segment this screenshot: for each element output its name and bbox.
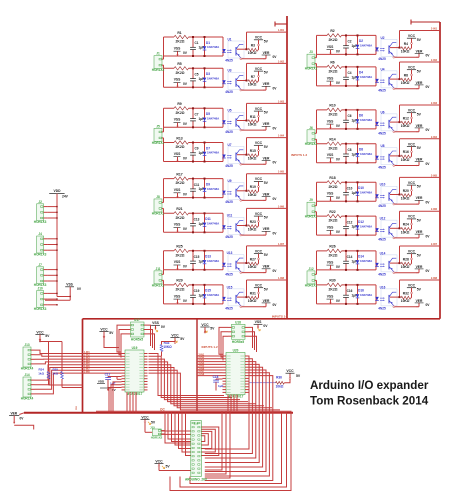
wires J13 to bus edge [35, 350, 83, 353]
connector J11 HOR1X2 [154, 271, 162, 284]
svg-text:4N25: 4N25 [378, 307, 386, 311]
zener diode D2 [357, 35, 359, 44]
svg-text:HOR1X3: HOR1X3 [34, 220, 47, 224]
svg-text:5V: 5V [417, 69, 422, 73]
svg-text:HOR1X2: HOR1X2 [305, 215, 318, 219]
wires J14 to bus edge [35, 365, 83, 380]
svg-text:1-IN7: 1-IN7 [84, 369, 90, 371]
wire big loop right [170, 411, 291, 490]
wire J6 pin1 [316, 129, 318, 133]
svg-text:VSS: VSS [174, 260, 181, 264]
IC U20 MCP23017 [226, 353, 245, 395]
svg-text:J2: J2 [38, 200, 42, 204]
svg-text:C17: C17 [105, 373, 111, 377]
capacitor C8 [345, 144, 347, 154]
svg-text:2-IN3: 2-IN3 [199, 360, 205, 362]
svg-text:1kΩ: 1kΩ [38, 372, 44, 376]
svg-text:R21: R21 [176, 207, 182, 211]
power flag VCC 5V [407, 218, 416, 220]
svg-text:2K2Ω: 2K2Ω [176, 216, 185, 220]
svg-text:D14: D14 [358, 255, 364, 259]
svg-text:4N25: 4N25 [225, 200, 233, 204]
svg-text:2-IN2: 2-IN2 [431, 59, 438, 62]
svg-text:U4: U4 [380, 67, 384, 71]
svg-text:VER: VER [263, 82, 270, 86]
svg-text:D10: D10 [358, 186, 364, 190]
svg-text:1N4748A: 1N4748A [207, 293, 220, 297]
svg-text:5V: 5V [151, 421, 156, 425]
wire J5 pin1 [163, 127, 165, 132]
svg-text:5V: 5V [210, 327, 215, 331]
capacitor C10 [345, 182, 347, 192]
svg-text:10KΩ: 10KΩ [401, 158, 410, 162]
optocoupler U16 4N25 [381, 289, 397, 306]
zener diode D12 [357, 216, 359, 225]
svg-text:1μF: 1μF [352, 225, 358, 229]
bus taps into U19 [83, 353, 122, 355]
net wire to bus 2-IN8 [400, 279, 441, 281]
svg-text:VSS: VSS [327, 119, 334, 123]
wire collector to pull-up [237, 120, 247, 122]
svg-text:R18: R18 [329, 176, 335, 180]
svg-text:2-IN6: 2-IN6 [199, 368, 205, 370]
svg-text:R2: R2 [330, 29, 334, 33]
svg-text:J5: J5 [156, 124, 160, 128]
svg-text:VER: VER [263, 193, 270, 197]
resistor R13 [174, 140, 189, 145]
svg-text:HOR1X3: HOR1X3 [34, 252, 47, 256]
svg-text:VCC: VCC [408, 66, 416, 70]
IC U19 MCP23017 [125, 350, 144, 392]
svg-text:1-IN7: 1-IN7 [278, 243, 285, 246]
wire J1 pin2 [163, 65, 165, 68]
wire emitter to VER [240, 272, 242, 274]
optocoupler U1 4N25 [228, 41, 244, 58]
wire VER hook [14, 425, 34, 429]
svg-text:10KΩ: 10KΩ [401, 81, 410, 85]
wire collector to pull-up [390, 227, 400, 229]
svg-text:VSS: VSS [255, 320, 263, 324]
wire J6 pin2 [316, 139, 318, 143]
svg-text:10KΩ: 10KΩ [248, 193, 257, 197]
wire input loop R21 [164, 212, 224, 214]
svg-text:1N4748A: 1N4748A [207, 151, 220, 155]
wire emitter to VER [393, 131, 395, 133]
svg-text:10KΩ: 10KΩ [248, 265, 257, 269]
wire emitter to VER [240, 200, 242, 202]
svg-text:2K2Ω: 2K2Ω [176, 111, 185, 115]
svg-text:QC: QC [160, 408, 165, 412]
wire J8 pin1 [163, 198, 165, 203]
wire emitter to VER [240, 58, 242, 60]
connector U17 HOR5x5 [131, 322, 145, 337]
optocoupler U13 4N25 [228, 255, 244, 272]
svg-text:R6: R6 [330, 61, 334, 65]
svg-text:4N25: 4N25 [225, 272, 233, 276]
svg-text:VER: VER [263, 265, 270, 269]
svg-text:U7: U7 [227, 143, 231, 147]
net wire to bus 2-IN2 [400, 61, 441, 63]
connector J7 HOR1X3 [37, 267, 44, 284]
svg-text:R31: R31 [250, 291, 256, 295]
svg-text:1μF: 1μF [199, 117, 205, 121]
resistor R2 [327, 33, 342, 38]
wires J4 to VDD rail [47, 238, 57, 240]
svg-text:2K2Ω: 2K2Ω [329, 113, 338, 117]
wire J3 pin1 [316, 54, 318, 57]
net wire to bus 1-IN6 [247, 207, 288, 209]
wire input loop R13 [164, 142, 224, 144]
power flag VCC 5V [407, 69, 416, 71]
wire J8 pin2 [163, 208, 165, 213]
svg-text:4N25: 4N25 [225, 59, 233, 63]
svg-text:4N25: 4N25 [225, 164, 233, 168]
svg-text:1μF: 1μF [352, 119, 358, 123]
svg-text:1N4748A: 1N4748A [360, 259, 373, 263]
wire C17 to U19 [108, 376, 122, 378]
wire input loop R5 [164, 67, 224, 69]
svg-text:R20: R20 [403, 189, 409, 193]
capacitor C19 [192, 285, 194, 295]
resistor R6 [327, 65, 342, 70]
wire collector to pull-up [237, 296, 247, 298]
svg-text:HOR1X2: HOR1X2 [152, 68, 165, 72]
svg-text:4N25: 4N25 [378, 57, 386, 61]
svg-text:R28: R28 [403, 257, 409, 261]
resistor R25 [174, 248, 189, 253]
svg-text:VSS: VSS [327, 294, 334, 298]
power flag 0V (C17) [100, 387, 111, 389]
wires U19 right pins routing [149, 354, 225, 396]
svg-text:5V: 5V [264, 39, 269, 43]
connector J5 HOR1X2 [154, 128, 162, 141]
svg-text:10KΩ: 10KΩ [401, 50, 410, 54]
svg-text:VSS: VSS [327, 226, 334, 230]
svg-text:4N25: 4N25 [378, 238, 386, 242]
wires U19 lower pins down [126, 392, 128, 413]
wire J9 pin2 [316, 212, 318, 216]
wires U17 left pins [117, 325, 127, 352]
svg-text:5V: 5V [264, 111, 269, 115]
svg-text:2K2Ω: 2K2Ω [176, 181, 185, 185]
svg-text:4N25: 4N25 [225, 307, 233, 311]
svg-text:VER: VER [416, 230, 423, 234]
svg-text:1μF: 1μF [199, 222, 205, 226]
pull-up resistor R16 [401, 154, 411, 158]
svg-text:HOR1X3: HOR1X3 [34, 307, 47, 311]
pull-up resistor R28 [401, 262, 411, 266]
svg-text:1kΩ: 1kΩ [52, 372, 58, 376]
net wire to bus 2-IN6 [400, 210, 441, 212]
zener diode D1 [204, 37, 206, 46]
capacitor C13 [192, 213, 194, 223]
svg-text:1-IN5: 1-IN5 [278, 171, 285, 174]
svg-text:R5: R5 [177, 62, 181, 66]
svg-text:10KΩ: 10KΩ [248, 51, 257, 55]
svg-text:VSS: VSS [174, 188, 181, 192]
svg-text:4N25: 4N25 [225, 90, 233, 94]
svg-text:2K2Ω: 2K2Ω [329, 146, 338, 150]
wire collector to pull-up [237, 80, 247, 82]
svg-text:1N4748A: 1N4748A [360, 152, 373, 156]
connector J1 HOR1X2 [154, 56, 162, 69]
svg-text:VCC: VCC [36, 330, 44, 334]
svg-text:D13: D13 [205, 255, 211, 259]
svg-text:2-IN5: 2-IN5 [431, 174, 438, 177]
wire J12 pin2 [316, 280, 318, 285]
wire emitter to VER [393, 237, 395, 239]
wire emitter to VER [240, 163, 242, 165]
svg-text:2-IN7: 2-IN7 [199, 371, 205, 373]
wire input loop R25 [164, 250, 224, 252]
svg-text:VCC: VCC [408, 181, 416, 185]
svg-text:2K2Ω: 2K2Ω [176, 40, 185, 44]
power flag VCC 5V (R33) [170, 337, 179, 339]
optocoupler U6 4N25 [381, 114, 397, 131]
svg-text:D9: D9 [206, 182, 210, 186]
svg-text:5V: 5V [109, 331, 114, 335]
connector J12 HOR1X2 [307, 271, 315, 284]
svg-text:VER: VER [416, 265, 423, 269]
power flag VCC 5V [254, 70, 263, 72]
svg-text:1-IN8: 1-IN8 [278, 277, 285, 280]
svg-text:J15: J15 [150, 425, 155, 429]
svg-text:1μF: 1μF [352, 76, 358, 80]
svg-text:VSS: VSS [174, 118, 181, 122]
net wire to bus 2-IN5 [400, 176, 441, 178]
svg-text:0V: 0V [161, 325, 166, 329]
svg-text:2K2Ω: 2K2Ω [176, 145, 185, 149]
connector J3 HOR1X2 [307, 54, 315, 67]
svg-text:2-IN3: 2-IN3 [431, 102, 438, 105]
svg-text:0V: 0V [263, 324, 268, 328]
svg-text:VCC: VCC [100, 327, 108, 331]
zener diode D16 [357, 285, 359, 294]
svg-text:VER: VER [263, 227, 270, 231]
svg-text:2K2Ω: 2K2Ω [329, 254, 338, 258]
svg-text:J14: J14 [24, 373, 29, 377]
pull-up resistor R31 [248, 296, 258, 300]
connector U18 HOR5x5 [232, 324, 246, 339]
svg-text:R22: R22 [329, 210, 335, 214]
svg-text:R7: R7 [251, 75, 255, 79]
svg-text:J1: J1 [156, 52, 160, 56]
svg-text:5V: 5V [264, 145, 269, 149]
svg-text:1-IN6: 1-IN6 [278, 205, 285, 208]
wire J1 pin1 [163, 56, 165, 59]
svg-text:VCC: VCC [408, 109, 416, 113]
svg-text:VSS: VSS [174, 223, 181, 227]
svg-text:C11: C11 [194, 183, 200, 187]
wire input loop R6 [317, 66, 377, 68]
svg-text:D4: D4 [359, 71, 363, 75]
svg-text:C13: C13 [194, 218, 200, 222]
svg-text:VSS: VSS [66, 283, 73, 287]
wire collector to pull-up [237, 190, 247, 192]
svg-text:VSS: VSS [327, 192, 334, 196]
zener diode D6 [357, 110, 359, 119]
pull-up resistor R27 [248, 261, 258, 265]
svg-text:U19: U19 [132, 346, 138, 350]
net wire to bus 1-IN1 [247, 31, 288, 33]
svg-text:1μF: 1μF [199, 259, 205, 263]
svg-text:C19: C19 [194, 289, 200, 293]
svg-text:5V: 5V [264, 253, 269, 257]
svg-text:R8: R8 [404, 73, 408, 77]
power flag VCC 5V [254, 287, 263, 289]
wire emitter to VER [393, 56, 395, 58]
svg-text:4N25: 4N25 [225, 130, 233, 134]
resistor R5 [174, 66, 189, 71]
svg-text:D11: D11 [205, 217, 211, 221]
zener diode D15 [204, 285, 206, 294]
wire collector to pull-up [237, 225, 247, 227]
svg-text:VCC: VCC [255, 212, 263, 216]
svg-text:1-IN3: 1-IN3 [278, 100, 285, 103]
net wire to bus 2-IN3 [400, 104, 441, 106]
pull-up resistor R15 [248, 153, 258, 157]
wire collector to pull-up [390, 121, 400, 123]
optocoupler U8 4N25 [381, 148, 397, 165]
svg-text:2-IN8: 2-IN8 [199, 374, 205, 376]
svg-text:5V: 5V [417, 38, 422, 42]
power flag VCC 5V [254, 110, 263, 112]
svg-text:1-IN4: 1-IN4 [278, 135, 285, 138]
wire input loop R14 [317, 143, 377, 145]
svg-text:1-IN1: 1-IN1 [84, 352, 90, 354]
svg-text:1N4748A: 1N4748A [207, 45, 220, 49]
svg-text:10KΩ: 10KΩ [401, 265, 410, 269]
power flag VCC 5V [407, 146, 416, 148]
svg-text:2K2Ω: 2K2Ω [329, 288, 338, 292]
svg-text:2-IN8: 2-IN8 [431, 277, 438, 280]
pull-up resistor R24 [401, 227, 411, 231]
svg-text:10KΩ: 10KΩ [401, 299, 410, 303]
svg-text:VCC: VCC [286, 369, 294, 373]
wires U20 lower pins down [227, 395, 229, 412]
connector J15 HOR1X2 [152, 429, 161, 436]
wires U18 left pins [219, 327, 228, 354]
bus branch to U20 [196, 319, 198, 411]
svg-text:VSS: VSS [152, 321, 160, 325]
svg-text:HOR1X2: HOR1X2 [305, 283, 318, 287]
wire emitter to VER [240, 306, 242, 308]
svg-text:C2: C2 [347, 40, 351, 44]
power flag VCC 5V [254, 215, 263, 217]
svg-text:2K2Ω: 2K2Ω [176, 288, 185, 292]
pull-up resistor R12 [401, 121, 411, 125]
svg-text:U12: U12 [380, 217, 386, 221]
svg-text:U9: U9 [227, 179, 231, 183]
optocoupler U15 4N25 [228, 289, 244, 306]
svg-text:R15: R15 [250, 149, 256, 153]
svg-text:VCC: VCC [408, 250, 416, 254]
wire input loop R26 [317, 250, 377, 252]
wire input loop R22 [317, 215, 377, 217]
svg-text:1μF: 1μF [352, 191, 358, 195]
wire J11 pin2 [163, 280, 165, 285]
svg-text:5V: 5V [417, 219, 422, 223]
svg-text:2K2Ω: 2K2Ω [329, 185, 338, 189]
svg-text:VCC: VCC [408, 34, 416, 38]
svg-text:VSS: VSS [327, 260, 334, 264]
svg-text:D7: D7 [206, 146, 210, 150]
svg-text:10KΩ: 10KΩ [401, 230, 410, 234]
svg-text:1-IN3: 1-IN3 [84, 358, 90, 360]
capacitor C16 [345, 285, 347, 295]
svg-text:VER: VER [416, 158, 423, 162]
wire emitter to VER [393, 203, 395, 205]
svg-text:C6: C6 [347, 114, 351, 118]
svg-text:VER: VER [263, 156, 270, 160]
wire VDD rail [56, 194, 58, 297]
svg-text:VDD: VDD [54, 189, 62, 193]
svg-text:5V: 5V [264, 287, 269, 291]
wire collector to pull-up [390, 78, 400, 80]
svg-text:5V: 5V [417, 185, 422, 189]
wire J5 pin2 [163, 138, 165, 143]
connector J10 HOR1X3 [37, 291, 44, 308]
pull-up resistor R4 [401, 46, 411, 50]
svg-text:1N4748A: 1N4748A [360, 224, 373, 228]
power flag VCC 5V (J13) [35, 334, 44, 336]
svg-text:C5: C5 [194, 73, 198, 77]
wire emitter to VER [393, 88, 395, 90]
svg-text:VCC: VCC [255, 36, 263, 40]
svg-text:VCC: VCC [255, 284, 263, 288]
svg-text:D5: D5 [206, 112, 210, 116]
svg-text:C10: C10 [347, 187, 353, 191]
svg-text:R16: R16 [403, 150, 409, 154]
svg-text:5V: 5V [45, 334, 50, 338]
svg-text:1μF: 1μF [352, 152, 358, 156]
resistor R30 [327, 283, 342, 288]
svg-text:VSS: VSS [174, 294, 181, 298]
svg-text:U3: U3 [227, 69, 231, 73]
svg-text:C16: C16 [347, 289, 353, 293]
svg-text:VSS: VSS [174, 152, 181, 156]
optocoupler U7 4N25 [228, 147, 244, 164]
svg-text:2-IN5: 2-IN5 [199, 366, 205, 368]
svg-text:HOR1X4: HOR1X4 [21, 396, 34, 400]
svg-text:HOR5x5: HOR5x5 [232, 340, 244, 344]
wire collector to pull-up [390, 262, 400, 264]
power flag VCC 5V [254, 39, 263, 41]
capacitor C7 [192, 108, 194, 118]
zener diode D13 [204, 251, 206, 260]
svg-text:HOR1X2: HOR1X2 [152, 141, 165, 145]
wire emitter to VER [393, 165, 395, 167]
svg-text:VCC: VCC [408, 142, 416, 146]
resistor R22 [327, 214, 342, 219]
wires J10 to VDD rail [47, 292, 57, 294]
svg-text:5V: 5V [180, 337, 185, 341]
svg-text:VER: VER [416, 299, 423, 303]
pull-up resistor R20 [401, 193, 411, 197]
svg-text:1N4748A: 1N4748A [360, 118, 373, 122]
svg-text:U17: U17 [134, 318, 140, 322]
svg-text:R32: R32 [403, 291, 409, 295]
svg-text:ARDUINO_26V: ARDUINO_26V [185, 478, 208, 482]
svg-text:HOR1X2: HOR1X2 [305, 142, 318, 146]
wire emitter to VER [393, 306, 395, 308]
svg-text:U8: U8 [380, 144, 384, 148]
svg-text:2K2Ω: 2K2Ω [329, 70, 338, 74]
svg-text:MCP23017: MCP23017 [228, 395, 244, 399]
svg-text:VSS: VSS [327, 76, 334, 80]
svg-text:J8: J8 [156, 195, 160, 199]
power flag VCC 5V [254, 180, 263, 182]
